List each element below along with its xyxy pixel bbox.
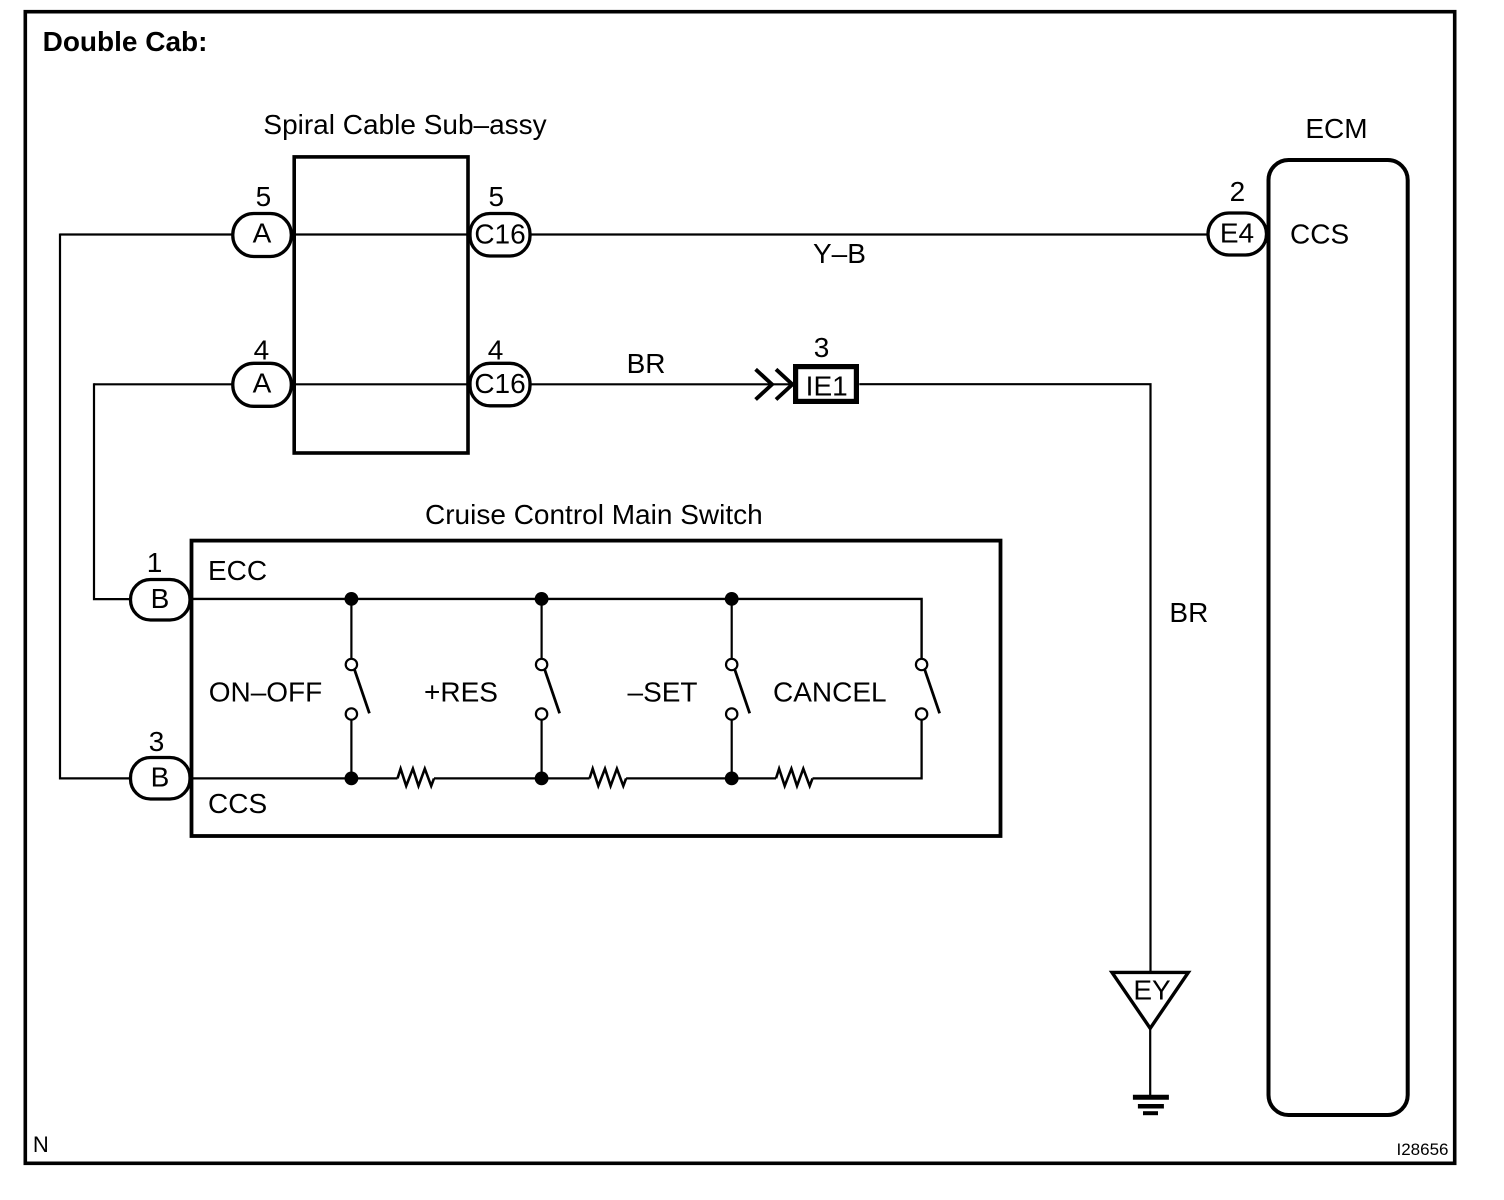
svg-text:4: 4 bbox=[254, 335, 270, 366]
svg-text:1: 1 bbox=[147, 547, 163, 578]
svg-text:EY: EY bbox=[1133, 975, 1171, 1006]
svg-text:3: 3 bbox=[814, 332, 830, 363]
svg-text:ECM: ECM bbox=[1305, 113, 1367, 144]
ECM box bbox=[1269, 160, 1408, 1115]
svg-text:2: 2 bbox=[1230, 176, 1246, 207]
svg-text:3: 3 bbox=[149, 726, 165, 757]
wire IE1 to ground EY bbox=[859, 384, 1150, 972]
wire EY to ground bbox=[1149, 1028, 1151, 1095]
svg-text:I28656: I28656 bbox=[1397, 1140, 1449, 1159]
svg-text:CCS: CCS bbox=[1290, 219, 1349, 250]
svg-text:B: B bbox=[151, 762, 170, 793]
svg-text:C16: C16 bbox=[474, 219, 525, 250]
svg-text:N: N bbox=[33, 1132, 49, 1157]
wire BR row: node A4 to chevron bbox=[94, 383, 795, 385]
chevron splice right bbox=[776, 369, 792, 399]
ground symbol bbox=[1133, 1097, 1169, 1113]
svg-text:BR: BR bbox=[627, 348, 666, 379]
svg-text:CANCEL: CANCEL bbox=[773, 677, 887, 708]
connector A pin5 bbox=[233, 214, 291, 257]
CCS bus wire segment 4 bbox=[813, 720, 922, 778]
ground EY triangle bbox=[1112, 972, 1188, 1028]
connector B pin3 bbox=[131, 758, 191, 800]
CCS bus wire segment 1 bbox=[131, 777, 398, 779]
svg-text:A: A bbox=[253, 367, 272, 398]
wire Y-B row: node A5 to ECM E4 bbox=[60, 233, 1210, 235]
svg-text:CCS: CCS bbox=[208, 788, 267, 819]
switch -SET bbox=[726, 599, 750, 779]
junction dot ECC bus / -SET bbox=[725, 592, 739, 606]
svg-text:Spiral Cable Sub–assy: Spiral Cable Sub–assy bbox=[263, 109, 546, 140]
svg-text:E4: E4 bbox=[1220, 218, 1254, 249]
svg-text:+RES: +RES bbox=[424, 677, 498, 708]
junction connector IE1 bbox=[796, 367, 857, 402]
junction dot CCS bus / -SET bbox=[725, 772, 739, 786]
svg-text:Cruise Control Main Switch: Cruise Control Main Switch bbox=[425, 499, 763, 530]
cruise control main switch box bbox=[192, 541, 1001, 836]
svg-text:4: 4 bbox=[488, 335, 504, 366]
connector A pin4 bbox=[233, 363, 291, 406]
svg-text:BR: BR bbox=[1169, 597, 1208, 628]
wire vertical from A5 row to B3 row bbox=[60, 234, 131, 779]
svg-text:–SET: –SET bbox=[628, 677, 698, 708]
junction dot ECC bus / +RES bbox=[535, 592, 549, 606]
svg-text:C16: C16 bbox=[474, 368, 525, 399]
CCS bus wire segment 3 bbox=[626, 777, 776, 779]
svg-text:ON–OFF: ON–OFF bbox=[209, 677, 323, 708]
junction dot CCS bus / +RES bbox=[535, 772, 549, 786]
svg-text:B: B bbox=[151, 583, 170, 614]
CCS bus wire segment 2 bbox=[434, 777, 590, 779]
ECC bus wire bbox=[192, 599, 922, 658]
resistor R1 bbox=[398, 769, 435, 786]
svg-text:5: 5 bbox=[256, 181, 272, 212]
switch +RES bbox=[536, 599, 560, 779]
resistor R3 bbox=[776, 769, 813, 786]
connector B pin1 bbox=[131, 580, 191, 621]
wire vertical from A4 row to B1 row bbox=[94, 383, 131, 599]
svg-text:Double Cab:: Double Cab: bbox=[43, 26, 208, 57]
switch CANCEL bbox=[916, 659, 940, 720]
chevron splice left bbox=[756, 369, 772, 399]
svg-text:Y–B: Y–B bbox=[813, 238, 866, 269]
svg-text:5: 5 bbox=[489, 181, 505, 212]
connector C16 pin4 bbox=[470, 363, 530, 406]
switch ON-OFF bbox=[346, 599, 370, 779]
junction dot CCS bus / ON-OFF bbox=[345, 772, 359, 786]
connector E4 bbox=[1208, 213, 1267, 255]
resistor R2 bbox=[590, 769, 627, 786]
junction dot ECC bus / ON-OFF bbox=[345, 592, 359, 606]
svg-text:IE1: IE1 bbox=[806, 371, 848, 402]
connector C16 pin5 bbox=[470, 214, 530, 257]
svg-text:A: A bbox=[253, 218, 272, 249]
spiral cable sub-assy box bbox=[294, 157, 468, 453]
svg-text:ECC: ECC bbox=[208, 555, 267, 586]
